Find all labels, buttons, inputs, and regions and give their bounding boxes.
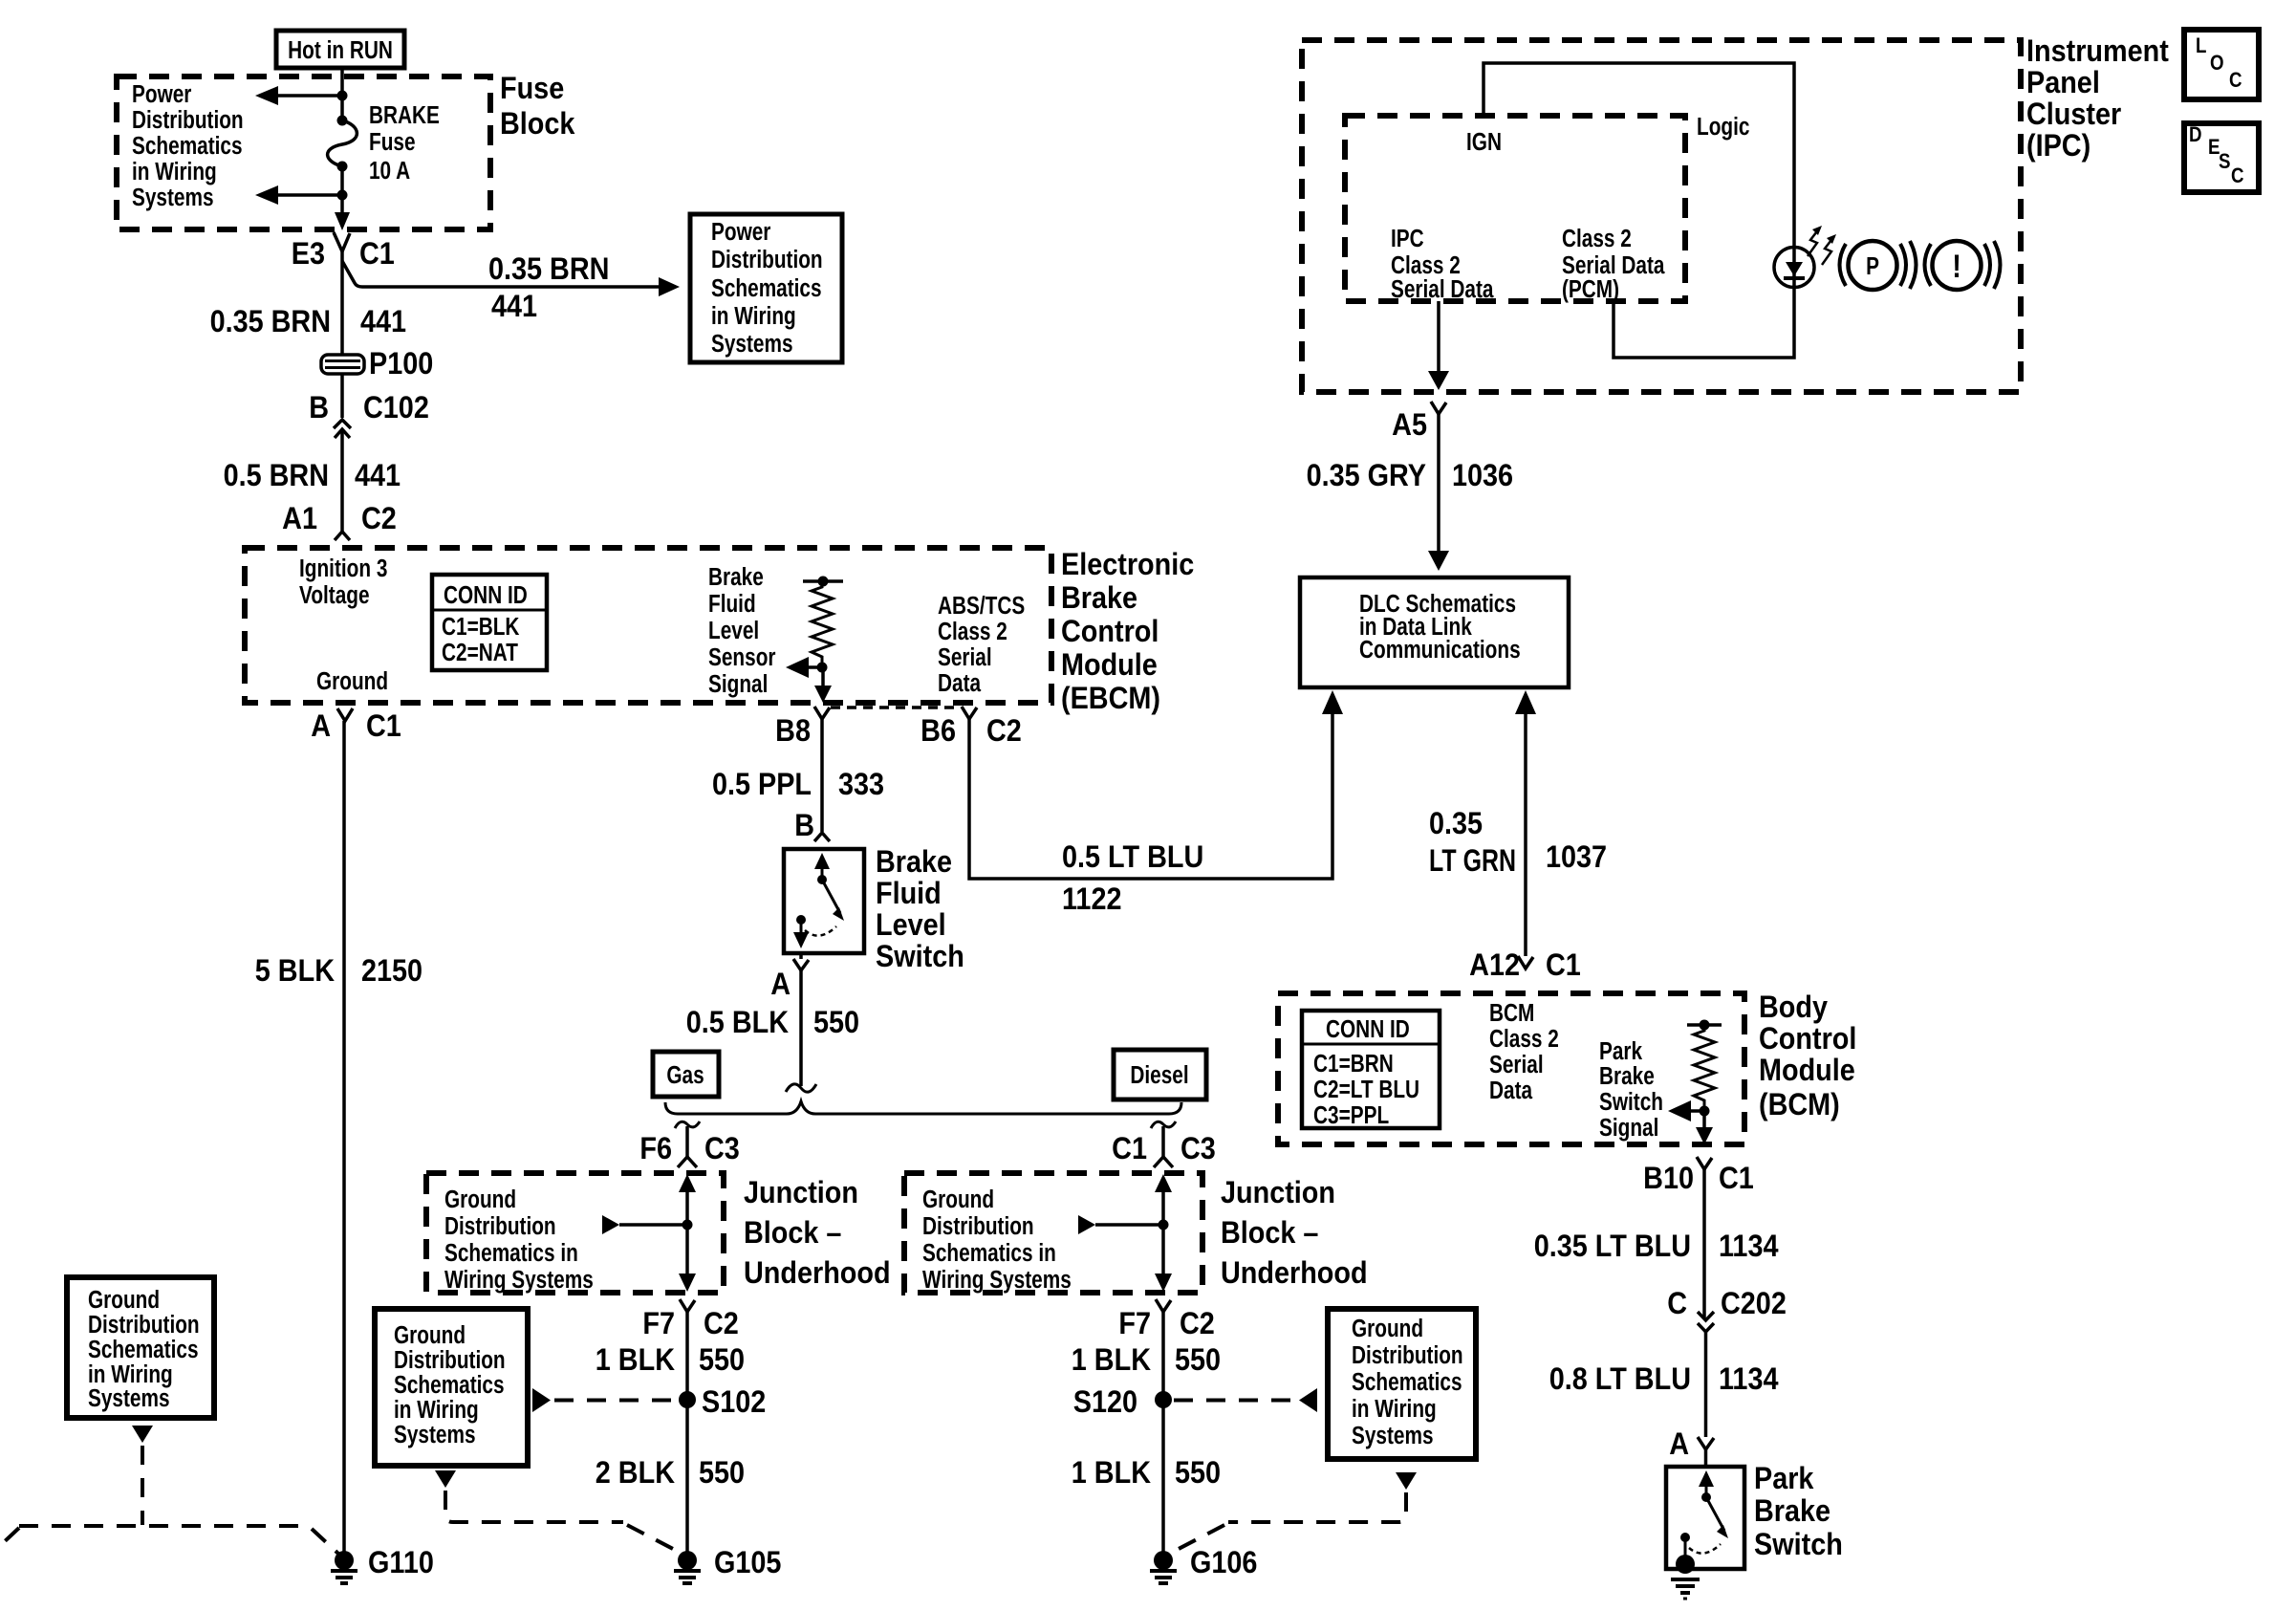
svg-text:A5: A5	[1392, 408, 1427, 443]
indicator lamp LED (brake warning)	[1774, 248, 1814, 288]
svg-text:550: 550	[1175, 1343, 1221, 1378]
svg-text:Distribution: Distribution	[444, 1212, 556, 1240]
brace: gas/diesel split	[665, 1101, 1181, 1114]
svg-text:Block: Block	[500, 107, 574, 142]
svg-text:550: 550	[699, 1456, 745, 1491]
svg-text:C1: C1	[1719, 1162, 1754, 1196]
svg-text:Serial: Serial	[1489, 1051, 1544, 1078]
label: IPC Class 2 Serial Data	[1391, 225, 1494, 303]
svg-text:Data: Data	[1489, 1077, 1533, 1104]
wire: sensor signal down arrow	[814, 667, 832, 703]
svg-text:C: C	[2229, 70, 2242, 93]
connector fork F7/C2 (diesel)	[1156, 1299, 1171, 1312]
svg-text:IPC: IPC	[1391, 225, 1424, 252]
svg-text:2150: 2150	[361, 954, 422, 989]
lamp light rays (lightning arrows)	[1808, 226, 1836, 265]
ground: park brake switch	[1671, 1555, 1700, 1599]
connector P100 grommet	[321, 355, 364, 374]
svg-text:441: 441	[355, 459, 401, 493]
resistor: brake fluid level sensor (EBCM)	[803, 577, 843, 673]
svg-text:Schematics: Schematics	[88, 1336, 199, 1363]
svg-text:Block –: Block –	[744, 1216, 841, 1251]
svg-text:F7: F7	[1118, 1307, 1151, 1341]
svg-text:Brake: Brake	[1061, 581, 1137, 616]
svg-text:Underhood: Underhood	[744, 1256, 891, 1291]
label: Class 2 Serial Data (PCM)	[1562, 225, 1665, 303]
svg-text:C: C	[1667, 1287, 1687, 1321]
svg-text:!: !	[1952, 248, 1961, 285]
svg-text:Class 2: Class 2	[938, 618, 1007, 645]
svg-text:C3: C3	[704, 1132, 740, 1166]
svg-text:G105: G105	[714, 1546, 782, 1580]
svg-text:IGN: IGN	[1466, 128, 1502, 156]
wire: LED to PCM serial data	[1614, 287, 1794, 358]
svg-text:Sensor: Sensor	[708, 643, 775, 671]
svg-text:A: A	[1669, 1427, 1689, 1462]
wire: dashed from far-left box to G110	[3, 1426, 338, 1554]
svg-text:Junction: Junction	[1221, 1176, 1335, 1210]
svg-text:C2: C2	[704, 1307, 739, 1341]
svg-text:Ground: Ground	[316, 667, 388, 695]
wire: dashed link B8-B6	[831, 706, 960, 709]
svg-text:in Wiring: in Wiring	[394, 1396, 479, 1424]
svg-text:Level: Level	[708, 617, 759, 644]
svg-text:F6: F6	[639, 1132, 672, 1166]
connector fork A/C1 (EBCM ground)	[337, 708, 353, 721]
svg-text:Systems: Systems	[132, 184, 214, 211]
connector fork B8	[814, 707, 830, 719]
svg-text:E3: E3	[292, 237, 325, 272]
connector fork A (switch)	[793, 959, 809, 970]
svg-text:Underhood: Underhood	[1221, 1256, 1368, 1291]
svg-text:Schematics: Schematics	[132, 132, 243, 160]
svg-text:C1: C1	[1546, 948, 1581, 983]
EBCM dashed box	[245, 548, 1051, 703]
svg-text:C: C	[2231, 165, 2244, 188]
svg-text:Logic: Logic	[1697, 113, 1749, 141]
svg-text:A: A	[770, 968, 791, 1002]
label: Ignition 3 Voltage	[299, 555, 387, 609]
svg-text:Module: Module	[1759, 1054, 1855, 1088]
svg-text:Ground: Ground	[444, 1186, 516, 1213]
junction block (gas) dashed box	[426, 1173, 724, 1293]
svg-text:Ground: Ground	[1352, 1315, 1423, 1342]
label: Electronic Brake Control Module (EBCM)	[1061, 548, 1194, 716]
svg-text:Data: Data	[938, 669, 982, 697]
svg-text:1 BLK: 1 BLK	[1072, 1343, 1151, 1378]
wire: sensor signal arrow left	[786, 657, 822, 678]
label: Park Brake Switch	[1754, 1462, 1843, 1562]
box: Park Brake Switch	[1666, 1467, 1744, 1569]
svg-text:in Wiring: in Wiring	[132, 158, 217, 185]
node: junction dot (diesel block)	[1159, 1220, 1169, 1230]
svg-text:Park: Park	[1599, 1037, 1643, 1065]
connector: gas branch crimp and fork	[675, 1121, 700, 1167]
svg-text:G110: G110	[368, 1546, 434, 1580]
wire: diesel block arrow to ground distribution	[1078, 1215, 1163, 1234]
svg-text:Schematics: Schematics	[711, 274, 822, 302]
svg-text:O: O	[2210, 53, 2224, 76]
svg-text:Instrument: Instrument	[2026, 34, 2169, 69]
svg-text:A1: A1	[282, 502, 317, 536]
svg-text:Signal: Signal	[1599, 1114, 1658, 1142]
wire: 1 BLK 550 (diesel)	[1161, 1312, 1165, 1552]
fuse BRAKE 10A	[328, 116, 357, 172]
svg-text:Systems: Systems	[88, 1384, 170, 1412]
svg-text:CONN ID: CONN ID	[1326, 1015, 1410, 1043]
ground G105	[674, 1551, 701, 1583]
label: Ground Distribution Schematics in Wiring Systems (gas junction)	[444, 1186, 594, 1294]
resistor: park brake switch pull-up (BCM)	[1687, 1020, 1722, 1117]
svg-text:in Wiring: in Wiring	[1352, 1395, 1437, 1423]
svg-text:Diesel: Diesel	[1130, 1061, 1188, 1089]
box: CONN ID (EBCM)	[432, 575, 547, 670]
wire: park brake signal down arrow	[1696, 1111, 1713, 1144]
svg-text:Park: Park	[1754, 1462, 1814, 1496]
svg-text:Distribution: Distribution	[1352, 1341, 1463, 1369]
node: junction dot (gas block)	[682, 1220, 693, 1230]
switch: brake fluid level internals	[793, 853, 844, 948]
box: Gas	[653, 1052, 719, 1097]
svg-text:LT GRN: LT GRN	[1429, 844, 1516, 879]
svg-text:Switch: Switch	[1599, 1088, 1663, 1116]
BCM dashed box	[1278, 993, 1744, 1144]
svg-text:Ground: Ground	[88, 1286, 160, 1314]
svg-text:C1=BRN: C1=BRN	[1313, 1050, 1394, 1078]
svg-text:C1=BLK: C1=BLK	[442, 613, 519, 641]
svg-text:5 BLK: 5 BLK	[255, 954, 335, 989]
svg-text:Brake: Brake	[876, 845, 952, 880]
label: Instrument Panel Cluster (IPC)	[2026, 34, 2169, 163]
svg-text:0.35 BRN: 0.35 BRN	[488, 252, 609, 287]
svg-text:C2=LT BLU: C2=LT BLU	[1313, 1076, 1419, 1103]
wire: 0.35 GRY 1036	[1428, 414, 1449, 571]
svg-text:Schematics: Schematics	[394, 1371, 505, 1399]
svg-text:Distribution: Distribution	[711, 246, 823, 273]
node: splice S120	[1155, 1391, 1172, 1408]
svg-text:CONN ID: CONN ID	[444, 581, 528, 609]
connector fork A12/C1	[1518, 956, 1533, 969]
wire: fuse output down arrow	[335, 166, 350, 230]
svg-text:P100: P100	[369, 347, 433, 381]
wire: 1 BLK 550 (gas)	[685, 1312, 689, 1552]
svg-text:0.35 BRN: 0.35 BRN	[210, 305, 331, 339]
svg-text:1037: 1037	[1546, 840, 1607, 875]
label: Park Brake Switch Signal	[1599, 1037, 1663, 1142]
svg-text:Panel: Panel	[2026, 66, 2100, 100]
svg-text:(PCM): (PCM)	[1562, 275, 1619, 303]
wire: IGN to indicator lamp	[1484, 63, 1794, 248]
svg-text:Serial Data: Serial Data	[1391, 275, 1494, 303]
svg-text:550: 550	[813, 1006, 859, 1040]
wire: 0.5 PPL 333	[820, 719, 824, 832]
svg-text:0.8 LT BLU: 0.8 LT BLU	[1549, 1362, 1691, 1397]
svg-text:S102: S102	[702, 1385, 766, 1420]
wire: switch A stub	[799, 953, 803, 959]
ground G106	[1150, 1551, 1177, 1583]
svg-text:C1: C1	[359, 237, 395, 272]
svg-text:in Wiring: in Wiring	[711, 302, 796, 330]
svg-text:(BCM): (BCM)	[1759, 1088, 1840, 1122]
svg-text:G106: G106	[1190, 1546, 1257, 1580]
svg-text:D: D	[2189, 124, 2202, 147]
svg-text:Fuse: Fuse	[500, 72, 564, 106]
svg-text:S120: S120	[1073, 1385, 1137, 1420]
svg-text:Schematics in: Schematics in	[444, 1239, 578, 1267]
wire: junction block gas internal double arrow	[679, 1174, 696, 1292]
label: ABS/TCS Class 2 Serial Data	[938, 592, 1025, 697]
svg-text:Fluid: Fluid	[876, 877, 942, 911]
svg-text:Control: Control	[1759, 1022, 1856, 1056]
svg-text:B8: B8	[775, 714, 811, 749]
svg-text:1036: 1036	[1452, 459, 1513, 493]
svg-text:C2: C2	[986, 714, 1022, 749]
svg-text:Brake: Brake	[1599, 1062, 1655, 1090]
indicator symbol (P) park brake	[1840, 241, 1917, 290]
svg-text:C102: C102	[363, 391, 429, 425]
svg-text:441: 441	[360, 305, 406, 339]
svg-text:1 BLK: 1 BLK	[596, 1343, 675, 1378]
label: Ground Distribution Schematics in Wiring Systems (diesel junction)	[922, 1186, 1072, 1294]
wire: 0.5 BRN 441 vertical	[340, 429, 344, 532]
svg-text:Distribution: Distribution	[922, 1212, 1034, 1240]
node: splice S102	[679, 1391, 696, 1408]
wire: junction block diesel internal double arrow	[1155, 1174, 1172, 1292]
box: Ground Distribution Schematics in Wiring Systems (far left)	[67, 1277, 214, 1418]
svg-text:Module: Module	[1061, 648, 1158, 683]
IPC outer dashed box	[1302, 40, 2021, 392]
wire: branch to power distribution schematics	[342, 261, 680, 296]
indicator symbol (!) brake warning	[1925, 241, 2001, 290]
svg-text:333: 333	[838, 768, 884, 802]
node: junction dot upper feed	[337, 91, 348, 101]
svg-text:B: B	[309, 391, 329, 425]
svg-text:441: 441	[491, 290, 537, 324]
switch: park brake internals	[1680, 1470, 1728, 1557]
wire: dashed from mid-left box to G105	[435, 1470, 675, 1550]
svg-text:(EBCM): (EBCM)	[1061, 682, 1160, 716]
svg-text:Schematics in: Schematics in	[922, 1239, 1056, 1267]
svg-text:Wiring Systems: Wiring Systems	[444, 1266, 594, 1294]
svg-text:Switch: Switch	[1754, 1528, 1843, 1562]
svg-text:Systems: Systems	[1352, 1422, 1434, 1449]
label: Power Distribution Schematics in Wiring Systems (fuse block)	[132, 80, 244, 211]
junction block (diesel) dashed box	[904, 1173, 1202, 1293]
svg-text:Distribution: Distribution	[88, 1311, 200, 1339]
box: CONN ID (BCM)	[1302, 1011, 1440, 1129]
svg-text:C1: C1	[366, 709, 401, 744]
svg-text:Fuse: Fuse	[369, 128, 416, 156]
wire: dashed from right box to G106	[1177, 1472, 1417, 1550]
DLC solid box	[1300, 577, 1569, 687]
label: Fuse Block	[500, 72, 574, 142]
svg-text:Control: Control	[1061, 615, 1159, 649]
svg-text:1122: 1122	[1062, 882, 1121, 917]
box: Power Distribution Schematics in Wiring Systems (right)	[690, 214, 842, 362]
svg-text:L: L	[2196, 35, 2206, 58]
label: BRAKE Fuse 10 A	[369, 101, 440, 185]
svg-text:Voltage: Voltage	[299, 581, 370, 609]
svg-text:Distribution: Distribution	[394, 1346, 506, 1374]
svg-text:Gas: Gas	[666, 1061, 704, 1089]
svg-text:Ground: Ground	[922, 1186, 994, 1213]
svg-text:A: A	[311, 709, 331, 744]
svg-text:B6: B6	[921, 714, 956, 749]
label: Body Control Module (BCM)	[1759, 991, 1856, 1122]
svg-text:Power: Power	[711, 218, 770, 246]
svg-text:0.5 BLK: 0.5 BLK	[686, 1006, 789, 1040]
connector C102 chevrons	[334, 420, 351, 438]
svg-text:C3: C3	[1180, 1132, 1216, 1166]
svg-text:Level: Level	[876, 908, 946, 943]
wire: dashed from S120 with arrow	[1174, 1388, 1317, 1412]
wire: fork to park brake switch	[1704, 1449, 1708, 1467]
svg-text:Class 2: Class 2	[1489, 1025, 1559, 1053]
wire: 0.35 LT BLU 1134	[1702, 1169, 1706, 1318]
svg-text:Fluid: Fluid	[708, 590, 756, 618]
wire: 0.35 BRN 441 vertical	[340, 251, 344, 418]
svg-text:BCM: BCM	[1489, 999, 1534, 1027]
svg-text:550: 550	[1175, 1456, 1221, 1491]
label: Brake Fluid Level Switch	[876, 845, 964, 974]
svg-text:Junction: Junction	[744, 1176, 858, 1210]
wire: arrow to power distribution (upper)	[255, 86, 342, 105]
box: Diesel	[1114, 1050, 1206, 1099]
svg-text:1134: 1134	[1719, 1362, 1779, 1397]
svg-text:0.35 LT BLU: 0.35 LT BLU	[1534, 1230, 1691, 1264]
box: Ground Distribution Schematics in Wiring Systems (mid left)	[375, 1309, 528, 1466]
svg-text:Brake: Brake	[708, 563, 764, 591]
label: Junction Block - Underhood (diesel)	[1221, 1176, 1368, 1291]
svg-text:0.5 BRN: 0.5 BRN	[224, 459, 329, 493]
svg-text:Brake: Brake	[1754, 1494, 1830, 1529]
label: BCM Class 2 Serial Data	[1489, 999, 1559, 1104]
label: Hot in RUN box	[276, 31, 404, 68]
svg-text:P: P	[1866, 252, 1879, 280]
label: Brake Fluid Level Sensor Signal	[708, 563, 775, 698]
wire: park brake signal arrow left	[1668, 1100, 1704, 1121]
IPC logic inner dashed box	[1345, 116, 1685, 301]
svg-text:Block –: Block –	[1221, 1216, 1318, 1251]
wire: B6/C2 to DLC (0.5 LT BLU 1122)	[969, 690, 1343, 879]
connector fork A5	[1431, 402, 1446, 414]
svg-text:Ground: Ground	[394, 1321, 466, 1349]
svg-text:C2=NAT: C2=NAT	[442, 639, 518, 666]
wire: gas block arrow to ground distribution	[602, 1215, 687, 1234]
connector chevron B (switch)	[814, 833, 830, 841]
svg-text:Serial: Serial	[938, 643, 992, 671]
svg-text:Communications: Communications	[1359, 636, 1521, 664]
svg-text:C3=PPL: C3=PPL	[1313, 1101, 1389, 1129]
svg-text:Class 2: Class 2	[1562, 225, 1632, 252]
svg-text:Switch: Switch	[876, 940, 964, 974]
svg-text:B: B	[794, 809, 814, 843]
svg-text:Schematics: Schematics	[1352, 1368, 1462, 1396]
box: Brake Fluid Level Switch	[784, 849, 864, 953]
box: LOC tag	[2184, 30, 2259, 99]
svg-text:C2: C2	[361, 502, 397, 536]
wire: IPC class2 serial data down arrow	[1428, 301, 1449, 390]
svg-text:Systems: Systems	[711, 330, 793, 358]
svg-text:Power: Power	[132, 80, 191, 108]
wire break symbol above brace	[786, 1084, 816, 1092]
connector fork B6	[962, 707, 977, 719]
connector fork B10/C1	[1697, 1157, 1712, 1169]
svg-text:0.5 LT BLU: 0.5 LT BLU	[1062, 840, 1203, 875]
svg-text:0.5 PPL: 0.5 PPL	[712, 768, 812, 802]
svg-text:C1: C1	[1112, 1132, 1147, 1166]
connector fork F7/C2 (gas)	[680, 1299, 695, 1312]
svg-text:A12: A12	[1469, 948, 1520, 983]
box: Ground Distribution Schematics in Wiring Systems (right)	[1328, 1309, 1476, 1459]
svg-text:Electronic: Electronic	[1061, 548, 1194, 582]
svg-text:0.35: 0.35	[1429, 807, 1483, 841]
svg-text:Distribution: Distribution	[132, 106, 244, 134]
svg-text:10 A: 10 A	[369, 157, 410, 185]
connector: diesel branch crimp and fork	[1151, 1121, 1176, 1167]
connector C202 chevrons	[1698, 1312, 1714, 1332]
label: Junction Block - Underhood (gas)	[744, 1176, 891, 1291]
box: DESC tag	[2184, 123, 2259, 192]
node: junction dot lower feed	[337, 190, 348, 201]
wire: arrow to power distribution (lower)	[255, 185, 342, 205]
svg-text:Wiring Systems: Wiring Systems	[922, 1266, 1072, 1294]
wire: BCM class 2 serial data to DLC (0.35 LT GRN 1037)	[1515, 690, 1536, 956]
wire: 5 BLK 2150 to G110	[342, 721, 346, 1552]
svg-text:F7: F7	[642, 1307, 675, 1341]
svg-text:B10: B10	[1643, 1162, 1694, 1196]
svg-text:550: 550	[699, 1343, 745, 1378]
svg-text:Systems: Systems	[394, 1421, 476, 1448]
svg-text:(IPC): (IPC)	[2026, 129, 2090, 163]
connector fork A (park brake switch)	[1698, 1437, 1714, 1449]
svg-text:S: S	[2219, 151, 2230, 174]
svg-text:0.35 GRY: 0.35 GRY	[1307, 459, 1426, 493]
fuse block dashed box	[117, 76, 490, 229]
wire: Hot in RUN to fuse block	[340, 66, 344, 120]
ground G110	[331, 1551, 357, 1583]
connector fork E3/C1	[334, 232, 350, 251]
connector chevron A1/C2	[335, 532, 350, 540]
svg-text:Cluster: Cluster	[2026, 98, 2121, 132]
svg-text:Hot in RUN: Hot in RUN	[288, 36, 393, 64]
wire: 0.8 LT BLU 1134	[1704, 1332, 1708, 1437]
wire: 0.5 BLK 550	[799, 970, 803, 1086]
svg-text:Ignition 3: Ignition 3	[299, 555, 387, 582]
wire: dashed to S102 with arrow	[532, 1388, 677, 1412]
svg-text:C2: C2	[1180, 1307, 1215, 1341]
svg-text:Body: Body	[1759, 991, 1828, 1025]
svg-text:1134: 1134	[1719, 1230, 1779, 1264]
svg-text:C202: C202	[1721, 1287, 1787, 1321]
svg-text:2 BLK: 2 BLK	[596, 1456, 675, 1491]
svg-text:1 BLK: 1 BLK	[1072, 1456, 1151, 1491]
svg-text:Signal: Signal	[708, 670, 768, 698]
svg-text:ABS/TCS: ABS/TCS	[938, 592, 1025, 620]
svg-text:BRAKE: BRAKE	[369, 101, 440, 129]
